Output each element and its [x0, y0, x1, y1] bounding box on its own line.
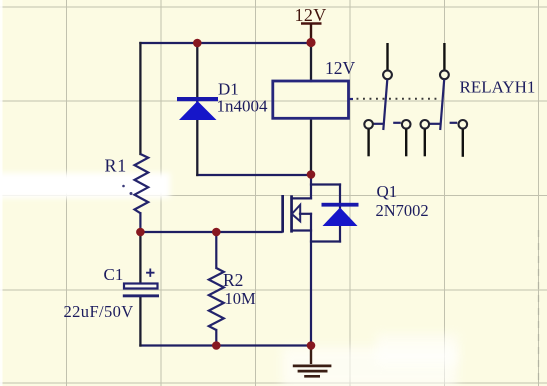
svg-text:10M: 10M	[225, 289, 257, 308]
svg-text:R1: R1	[105, 156, 128, 176]
svg-text:R2: R2	[223, 270, 243, 290]
svg-text:22uF/50V: 22uF/50V	[64, 302, 134, 321]
svg-text:RELAYH1: RELAYH1	[460, 78, 536, 97]
svg-text:12V: 12V	[325, 58, 356, 78]
svg-text:C1: C1	[104, 265, 124, 284]
svg-text:1n4004: 1n4004	[217, 97, 269, 116]
svg-text:12V: 12V	[295, 5, 327, 25]
svg-text:Q1: Q1	[377, 182, 398, 201]
svg-text:2N7002: 2N7002	[376, 201, 429, 220]
